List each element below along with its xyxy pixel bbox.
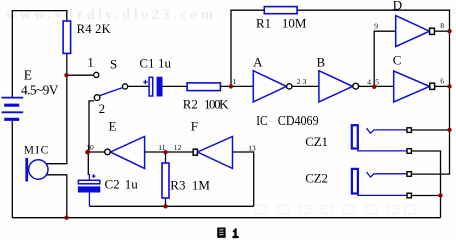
wire E output to node 10 [88, 151, 105, 153]
svg-text:A: A [253, 55, 263, 70]
capacitor C1 1u [143, 77, 162, 96]
jack CZ2 [352, 169, 412, 198]
svg-text:F: F [191, 118, 198, 133]
node C output rail [447, 84, 451, 88]
svg-text:D: D [393, 0, 402, 12]
battery E [2, 98, 24, 120]
wire C1 to R2 [162, 85, 187, 87]
svg-text:R4 2K: R4 2K [77, 22, 111, 36]
wire MIC bottom to ground bus [47, 175, 67, 218]
svg-text:4: 4 [367, 78, 371, 87]
svg-text:S: S [110, 57, 117, 72]
svg-text:C: C [393, 52, 402, 67]
wire node up to D input [374, 31, 396, 86]
watermark bottom [256, 205, 415, 214]
svg-text:10: 10 [86, 143, 94, 152]
wire node down to MIC top [47, 75, 67, 164]
node B output [372, 85, 376, 89]
wire CZ2 sleeve to vertical [412, 195, 441, 197]
svg-text:9: 9 [374, 22, 378, 31]
wire D output to rail [435, 30, 450, 32]
svg-text:IC: IC [256, 114, 267, 129]
ground bus [12, 217, 441, 219]
switch terminal 2 [94, 95, 100, 101]
svg-text:2: 2 [99, 101, 106, 116]
wire E input to F output [145, 151, 193, 153]
svg-text:CZ1: CZ1 [305, 134, 328, 149]
svg-text:8: 8 [440, 21, 444, 30]
svg-text:B: B [317, 55, 326, 70]
svg-text:11: 11 [158, 143, 165, 152]
inverter E [110, 137, 144, 169]
wire R4 bottom to node 1 [66, 53, 68, 75]
svg-text:2: 2 [297, 77, 301, 86]
node CZ1 tip rail [447, 128, 451, 132]
node R4/S1/MIC [64, 73, 68, 77]
svg-text:12: 12 [174, 143, 182, 152]
svg-text:1u: 1u [125, 177, 139, 192]
svg-text:CD4069: CD4069 [278, 114, 319, 129]
figure caption 图 1 [217, 228, 238, 238]
svg-text:100K: 100K [204, 97, 229, 112]
svg-text:1: 1 [87, 55, 94, 70]
inverter C [394, 71, 430, 102]
svg-text:6: 6 [440, 77, 444, 86]
wire CZ1 tip to rail [412, 129, 450, 131]
wire R2 to node to A input [220, 85, 253, 87]
wire switch terminal 2 down to node 10 [89, 101, 94, 152]
svg-text:CZ2: CZ2 [305, 171, 328, 186]
resistor R1 10M [264, 7, 297, 14]
wire switch common to C1 [128, 85, 149, 87]
wire CZ1 sleeve down to bus [412, 151, 441, 218]
node A input [229, 84, 233, 88]
switch common terminal [123, 84, 128, 89]
jack CZ1 [352, 125, 412, 153]
wire R3 top lead [165, 152, 167, 163]
wire F input down to RC line [233, 152, 254, 206]
svg-text:1M: 1M [192, 178, 211, 193]
wire node to switch terminal 1 [66, 74, 93, 76]
resistor R4 2K [63, 21, 71, 53]
wire battery top to R4 [12, 11, 67, 97]
inverter A [253, 71, 286, 102]
wire node up through R1 top rail down right side [231, 10, 450, 174]
node pin11/12 [163, 150, 167, 154]
inverter F [198, 137, 233, 169]
svg-text:1: 1 [233, 77, 237, 86]
svg-text:1u: 1u [158, 56, 172, 71]
node D output rail [447, 29, 451, 33]
wire RC line y206 [89, 205, 253, 207]
svg-text:E: E [109, 118, 117, 133]
svg-text:R3: R3 [170, 178, 185, 193]
wire A output to B input [292, 85, 319, 87]
svg-text:4.5~9V: 4.5~9V [21, 83, 59, 98]
svg-text:R2: R2 [183, 97, 198, 112]
resistor R3 1M [162, 163, 169, 198]
svg-text:10M: 10M [282, 15, 307, 30]
svg-text:13: 13 [248, 144, 256, 153]
svg-text:5: 5 [375, 78, 379, 87]
inverter D [396, 16, 430, 47]
node pin10 [85, 150, 90, 155]
wire C output to rail [435, 85, 450, 87]
resistor R2 100K [187, 83, 220, 91]
wire R3 bottom lead [165, 198, 167, 206]
svg-text:C1: C1 [139, 55, 154, 70]
node R3 bottom [163, 204, 167, 208]
wire node to C input [374, 85, 394, 87]
svg-text:www.vdzdiy.dlo23.com: www.vdzdiy.dlo23.com [6, 7, 216, 23]
inverter B [319, 71, 353, 102]
switch S blade [99, 88, 123, 96]
node MIC-ground [64, 216, 68, 220]
microphone MIC [25, 158, 48, 182]
wire battery bottom to bus corner [11, 121, 13, 218]
svg-text:MIC: MIC [24, 144, 49, 156]
capacitor C2 1u [78, 174, 99, 206]
svg-text:E: E [24, 68, 32, 83]
svg-text:3: 3 [303, 77, 307, 86]
pin number labels [86, 21, 444, 153]
node CZ2 sleeve [438, 193, 442, 197]
svg-text:C2: C2 [105, 177, 120, 192]
wire B output to node 4-5 [359, 85, 375, 87]
switch terminal 1 [94, 72, 99, 77]
wire C2 top lead [87, 152, 89, 175]
svg-text:R1: R1 [256, 15, 271, 30]
